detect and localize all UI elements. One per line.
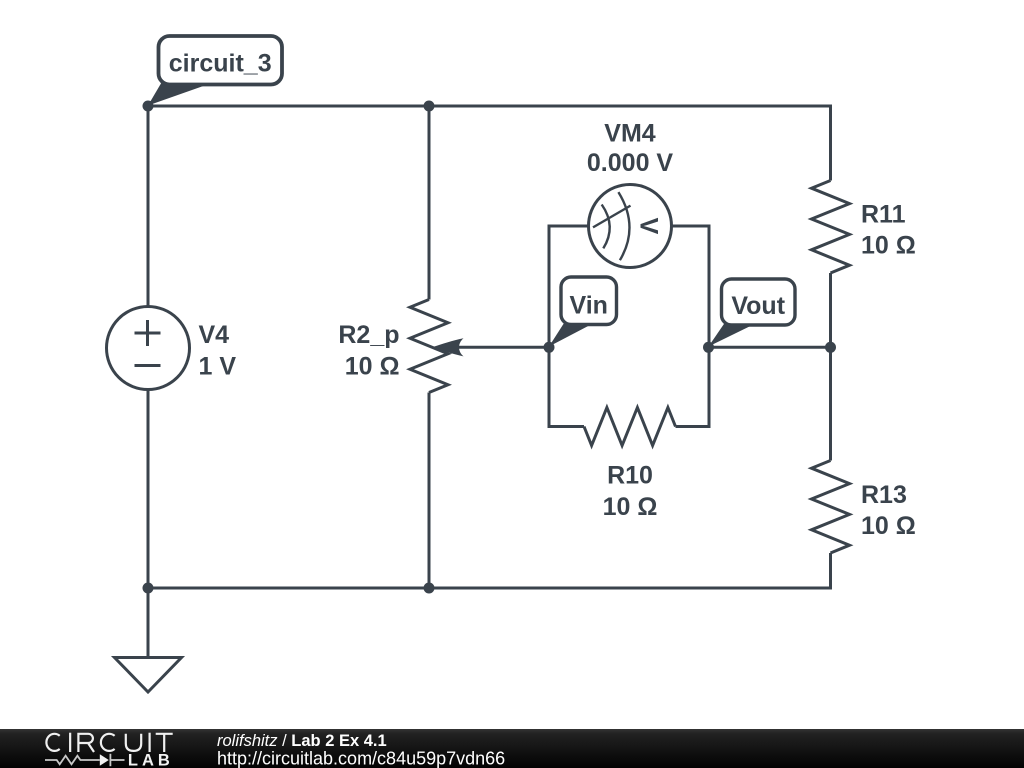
V4 plus sign [135,320,161,346]
node circuit_3 junction dot [143,101,154,112]
svg-text:http://circuitlab.com/c84u59p7: http://circuitlab.com/c84u59p7vdn66 [217,748,505,768]
svg-text:10 Ω: 10 Ω [861,512,916,540]
wire bottom rail [148,553,831,588]
svg-text:0.000 V: 0.000 V [587,149,674,177]
svg-text:10 Ω: 10 Ω [861,231,916,259]
logo CIRCUIT lettering [46,733,172,752]
svg-text:circuit_3: circuit_3 [169,50,272,78]
svg-text:rolifshitz / Lab 2 Ex 4.1: rolifshitz / Lab 2 Ex 4.1 [217,732,387,750]
resistor R13 zigzag [812,461,850,554]
voltmeter VM4 needle [593,206,631,228]
wire R2_p bottom lead [428,393,431,589]
node Vin junction dot [544,342,555,353]
svg-text:R13: R13 [861,481,907,509]
voltmeter VM4 circle [589,185,672,268]
svg-text:V: V [635,218,663,235]
wire R11 bottom lead [829,273,832,347]
resistor R10 zigzag [584,408,676,446]
wire left branch upper (node to V4 top) [147,106,150,307]
logo resistor-diode glyph [45,754,125,766]
svg-text:10 Ω: 10 Ω [603,493,658,521]
wire Vin stub up [549,226,589,347]
wire R2_p top lead [428,106,431,300]
svg-text:1 V: 1 V [199,353,237,381]
voltmeter VM4 gauge arcs [593,192,631,260]
wire wiper to Vin node [450,346,549,349]
wire R10 left leg [549,347,584,426]
svg-text:V4: V4 [199,321,230,349]
potentiometer R2_p wiper arrowhead [432,338,464,356]
node flag circuit_3 [148,36,282,106]
wire R13 top lead [829,347,832,460]
voltage source V4 circle [107,307,190,390]
wire ground stub [147,588,150,658]
V4 minus sign [135,364,161,367]
svg-text:Vout: Vout [731,292,785,320]
node Vout junction dot [703,342,714,353]
svg-text:R2_p: R2_p [338,321,399,349]
node R2_p top junction dot [424,101,435,112]
node right rail junction dot [825,342,836,353]
node R2_p bottom junction dot [424,583,435,594]
svg-text:R10: R10 [607,462,653,490]
wire top rail [148,106,831,181]
wire R10 right leg [676,347,710,426]
svg-text:R11: R11 [861,200,906,228]
svg-text:VM4: VM4 [604,119,656,147]
wire left branch lower (V4 bottom to bottom rail) [147,390,150,589]
footer bar [0,729,1024,768]
ground symbol [115,658,182,693]
svg-text:LAB: LAB [128,751,174,768]
node flag Vout [709,279,796,347]
wire VM4 right stub down [672,226,710,347]
wire Vout rail [709,346,831,349]
node ground junction dot [143,583,154,594]
resistor R11 zigzag [812,181,850,274]
node flag Vin [549,277,617,347]
svg-text:Vin: Vin [569,291,607,319]
potentiometer R2_p zigzag [410,300,448,393]
svg-text:10 Ω: 10 Ω [345,352,400,380]
